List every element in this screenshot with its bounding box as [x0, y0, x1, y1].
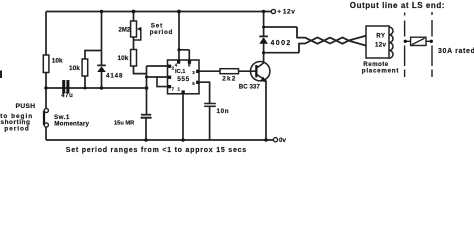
wire R2 leads	[85, 51, 102, 89]
wire relay pair top feed	[264, 26, 297, 28]
wire pin 6 to pin 7 loop	[157, 77, 168, 87]
label set period	[150, 22, 173, 36]
svg-text:12v: 12v	[375, 42, 386, 49]
wire D2 anode to collector node	[263, 44, 265, 62]
wire output line right dashed	[431, 12, 433, 77]
svg-text:Output line at LS end:: Output line at LS end:	[350, 1, 445, 10]
wire R1 bottom to switch	[45, 73, 47, 109]
wire trigger line	[46, 87, 147, 89]
resistor R2 10k	[69, 59, 88, 76]
wire switch bottom to 0V rail	[45, 127, 47, 140]
svg-text:BC 337: BC 337	[239, 83, 261, 90]
relay RY 12v coil	[366, 26, 393, 58]
capacitor C2 15u MR	[114, 115, 152, 127]
label push to begin shorting period	[0, 103, 35, 133]
resistor R3 10k	[118, 50, 137, 67]
wire twisted pair conductor B	[299, 37, 366, 52]
wire diode D1 branch from rail	[101, 12, 103, 89]
pin 3	[192, 70, 199, 75]
pin 6	[168, 76, 171, 79]
wire node vertical pins 2-6-7 junction to 15u	[146, 66, 148, 114]
wire 2M2 branch from rail	[133, 12, 135, 22]
capacitor C1 47u	[61, 80, 73, 99]
pin 5	[192, 81, 199, 86]
wire pins 4-8 supply	[179, 12, 189, 61]
wire 2M2 wiper to bottom	[134, 29, 141, 40]
svg-text:10k: 10k	[69, 65, 80, 72]
wire pin 1 to 0V rail	[182, 94, 184, 140]
wire 2M2 to R3	[133, 37, 135, 50]
transistor Q1 BC337	[239, 61, 270, 90]
pin 8	[188, 60, 191, 67]
svg-text:PUSH: PUSH	[16, 103, 36, 110]
diode D1 1N4148	[97, 65, 123, 79]
relay contact 30A	[404, 37, 474, 55]
potentiometer VR1 2M2	[119, 21, 142, 37]
wire pin 2	[147, 65, 168, 67]
wire +12V to relay loop	[263, 12, 265, 37]
node junction dots	[44, 10, 267, 142]
svg-text:10n: 10n	[217, 108, 230, 115]
wire pin 3 to R4	[199, 70, 220, 72]
wire top +12V rail	[46, 11, 271, 13]
svg-text:Set period ranges from <1 to a: Set period ranges from <1 to approx 15 s…	[66, 147, 247, 154]
svg-text:placement: placement	[362, 67, 399, 74]
node 0v terminal	[273, 137, 286, 144]
svg-text:period: period	[150, 29, 173, 36]
wire relay pair bottom return	[264, 52, 299, 54]
wire bottom 0V rail	[46, 139, 273, 141]
wire twisted pair conductor A	[297, 27, 366, 44]
edge artifact mark	[0, 71, 2, 79]
svg-text:4002: 4002	[271, 40, 292, 47]
svg-text:10k: 10k	[52, 58, 63, 65]
wire left branch from rail to R1	[45, 12, 47, 56]
wire 15u to 0V rail	[145, 118, 147, 140]
wire pin 5 to C3	[199, 82, 210, 103]
svg-text:Momentary: Momentary	[54, 121, 89, 128]
svg-text:15u MR: 15u MR	[114, 120, 134, 126]
wire Q1 emitter to 0V rail	[265, 81, 267, 140]
resistor R4 2k2	[220, 69, 239, 83]
pin 2	[168, 65, 175, 71]
svg-text:2M2: 2M2	[119, 28, 131, 34]
svg-text:10k: 10k	[118, 55, 129, 62]
svg-text:2k2: 2k2	[222, 76, 236, 83]
resistor R1 10k	[43, 55, 63, 73]
wire R4 to Q1 base	[239, 70, 257, 72]
diode D2 1N4002	[259, 36, 291, 46]
svg-text:0v: 0v	[279, 137, 287, 144]
pin 4	[175, 60, 181, 67]
switch SW1 momentary push	[43, 108, 90, 127]
node +12v terminal	[271, 9, 295, 16]
wire output line left dashed	[404, 13, 406, 78]
op-amp U1 555 timer IC body	[168, 60, 200, 94]
wire R3 bottom jog to node	[134, 66, 147, 74]
pin 1	[178, 86, 185, 93]
svg-text:47u: 47u	[61, 93, 73, 99]
capacitor C3 10n	[204, 104, 229, 115]
svg-text:4148: 4148	[106, 72, 123, 79]
pin 7	[168, 85, 175, 92]
svg-text:IC.1: IC.1	[175, 69, 185, 75]
svg-text:RY: RY	[376, 33, 386, 40]
svg-text:30A rated: 30A rated	[438, 48, 474, 55]
svg-text:+ 12v: + 12v	[277, 9, 295, 16]
wire pin 6	[147, 76, 168, 78]
svg-text:555: 555	[177, 76, 190, 83]
label remote placement	[362, 61, 399, 75]
wire C3 to 0V rail	[209, 106, 211, 140]
svg-text:period: period	[4, 126, 30, 133]
